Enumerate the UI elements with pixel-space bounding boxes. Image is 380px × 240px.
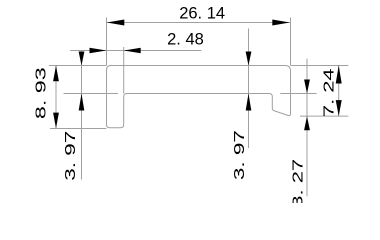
arrow 3.97R bottom (outside, pointing up)	[246, 94, 252, 111]
extension line bottom-right (7.24 / 3.27)	[300, 115, 348, 117]
dimension line 3.97 left	[81, 51, 83, 180]
extension line leg right edge (2.48)	[123, 47, 125, 93]
arrow 7.24 bottom (pointing down)	[336, 100, 342, 116]
arrow 3.97R top (outside, pointing down)	[246, 52, 252, 66]
arrow 8.93 top (pointing up)	[53, 66, 59, 82]
arrow 2.48 right (outside, pointing left)	[124, 48, 141, 54]
extension line bottom-left (8.93)	[50, 128, 106, 130]
arrow 8.93 bottom (pointing down)	[53, 113, 59, 129]
svg-text:3. 97: 3. 97	[231, 130, 247, 180]
arrow 26.14 right	[272, 20, 290, 26]
dimension line 8.93	[55, 66, 57, 129]
arrow 3.27 top (outside, pointing down)	[304, 80, 310, 94]
dimension line 7.24	[338, 66, 340, 117]
extension line underside-left (3.97)	[64, 93, 119, 95]
profile outline of extrusion cross-section	[107, 66, 291, 128]
arrow 3.27 bottom (outside, pointing up)	[304, 116, 310, 130]
arrow 26.14 left	[107, 20, 125, 26]
svg-text:8. 93: 8. 93	[32, 67, 49, 119]
svg-text:3. 27: 3. 27	[289, 159, 306, 203]
arrow 3.97L top (outside, pointing down)	[79, 52, 85, 66]
extension line top-left (8.93 / 3.97)	[49, 65, 107, 67]
dimension line 26.14	[107, 22, 290, 24]
arrow 3.97L bottom (outside, pointing up)	[79, 94, 85, 111]
dimension line 3.97 right	[248, 29, 250, 149]
dimension line 3.27	[306, 59, 308, 197]
arrow 2.48 left (outside, pointing right)	[90, 48, 107, 54]
extension line left edge (26.14 / 2.48)	[106, 18, 108, 66]
svg-text:26. 14: 26. 14	[179, 5, 225, 23]
svg-text:3. 97: 3. 97	[63, 131, 79, 181]
extension line top-right (3.97R reference / 7.24)	[291, 65, 349, 67]
extension line right edge (26.14)	[290, 18, 292, 66]
svg-text:2. 48: 2. 48	[167, 30, 204, 48]
dimension line 2.48	[70, 50, 201, 52]
extension line underside-right (3.27)	[280, 93, 316, 95]
arrow 7.24 top (pointing up)	[336, 66, 342, 84]
svg-text:7. 24: 7. 24	[320, 68, 337, 117]
